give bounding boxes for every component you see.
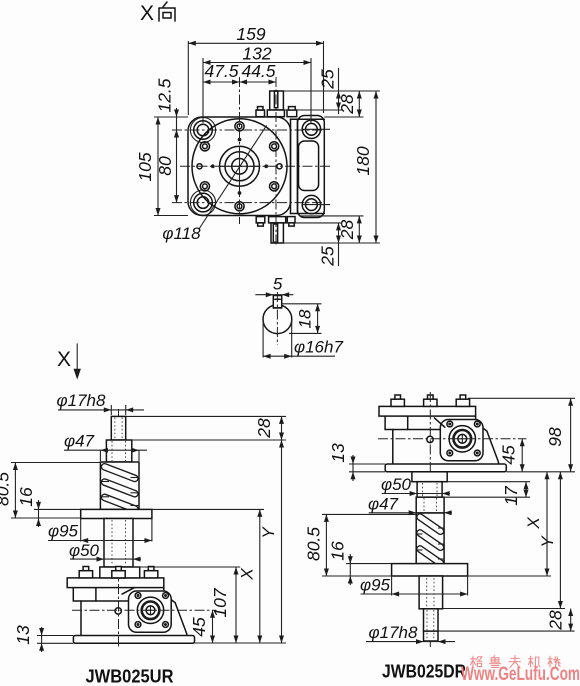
svg-text:X: X bbox=[524, 517, 543, 530]
top view lower shaft bolts bbox=[256, 217, 295, 226]
DR dimension 80.5 bbox=[304, 514, 417, 576]
DR box chamfer bbox=[434, 418, 444, 427]
svg-text:X: X bbox=[238, 568, 257, 581]
key section centrelines bbox=[276, 292, 278, 345]
DR dimension 13 bbox=[328, 443, 385, 481]
UR column foot bbox=[100, 567, 140, 578]
svg-text:φ47: φ47 bbox=[64, 432, 95, 451]
UR plate phi95 bbox=[81, 509, 152, 518]
UR gearbox bbox=[67, 567, 194, 644]
top view corner bolt holes bbox=[190, 117, 215, 142]
UR column phi50 bbox=[104, 519, 133, 568]
svg-text:28: 28 bbox=[337, 94, 357, 115]
svg-text:44.5: 44.5 bbox=[241, 61, 275, 81]
top view worm shaft lower bbox=[269, 217, 286, 243]
UR flange middle bolt bbox=[112, 567, 125, 578]
dimension 25 top right bbox=[284, 68, 342, 114]
svg-text:JWB025DR: JWB025DR bbox=[382, 661, 466, 682]
top view housing recess bbox=[299, 141, 319, 191]
UR top shaft phi17h8 bbox=[111, 416, 125, 440]
svg-text:28: 28 bbox=[546, 610, 566, 631]
DR dimension X bbox=[468, 472, 551, 576]
UR dimension 13 bbox=[13, 625, 73, 652]
DR centreline bbox=[429, 392, 431, 648]
svg-text:φ47: φ47 bbox=[368, 495, 399, 514]
dimension 25 bottom right bbox=[286, 223, 343, 267]
dimension 47.5 bbox=[203, 61, 240, 85]
dimension 28 bottom right bbox=[283, 216, 380, 243]
DR dimension 16 bbox=[328, 541, 392, 585]
svg-text:16: 16 bbox=[16, 487, 36, 507]
svg-text:φ95: φ95 bbox=[360, 576, 391, 595]
DR lower cylinder bbox=[419, 576, 443, 609]
svg-text:13: 13 bbox=[13, 625, 33, 645]
DR collar under base bbox=[412, 472, 447, 482]
UR collar phi47 bbox=[106, 440, 131, 462]
svg-text:φ16h7: φ16h7 bbox=[294, 338, 343, 357]
UR dimension phi17h8 bbox=[57, 391, 144, 415]
key section shaft circle bbox=[263, 305, 292, 334]
svg-text:28: 28 bbox=[254, 418, 274, 439]
dimension 159 bbox=[188, 24, 323, 115]
UR screw with thread bbox=[100, 462, 139, 509]
DR screw thread section bbox=[416, 513, 444, 564]
DR dimension 28 bbox=[438, 609, 575, 632]
top view upper shaft bolts bbox=[256, 107, 297, 117]
UR thread spiral bbox=[100, 467, 139, 509]
svg-text:80.5: 80.5 bbox=[0, 472, 13, 506]
svg-text:Www.GeLufu.Com: Www.GeLufu.Com bbox=[461, 664, 580, 685]
DR dimension 98 bbox=[468, 398, 575, 472]
view arrow X bbox=[57, 343, 81, 379]
UR dimension 28 bbox=[126, 416, 286, 440]
UR dimension phi50 bbox=[69, 541, 141, 562]
dimension phi16h7 bbox=[263, 319, 343, 359]
dimension 44.5 bbox=[240, 61, 277, 85]
top view worm axis centreline bbox=[275, 77, 277, 247]
dimension 12.5 bbox=[155, 78, 180, 137]
DR dimension phi50 bbox=[381, 475, 450, 496]
svg-text:φ50: φ50 bbox=[69, 541, 100, 560]
svg-text:Y: Y bbox=[259, 526, 278, 539]
UR dimension phi95 bbox=[48, 519, 152, 544]
top view worm shaft upper bbox=[267, 91, 284, 117]
svg-text:80.5: 80.5 bbox=[304, 527, 324, 561]
svg-text:17: 17 bbox=[501, 485, 521, 506]
UR worm axis centreline bbox=[72, 609, 217, 611]
svg-text:12.5: 12.5 bbox=[155, 78, 175, 112]
svg-text:X: X bbox=[140, 2, 154, 25]
svg-text:φ95: φ95 bbox=[48, 522, 79, 541]
dimension 28 top right bbox=[283, 91, 380, 117]
UR base bottom extension bbox=[195, 642, 287, 644]
UR dimension 16 bbox=[16, 487, 81, 527]
svg-text:φ118: φ118 bbox=[162, 224, 201, 243]
top view worm housing neck bbox=[290, 119, 292, 214]
UR dimension 80.5 bbox=[0, 463, 100, 519]
dimension 180 bbox=[353, 91, 379, 243]
DR worm axis centreline bbox=[378, 438, 527, 440]
svg-text:105: 105 bbox=[135, 152, 155, 181]
top view worm housing plate bbox=[298, 116, 325, 218]
svg-text:25: 25 bbox=[318, 246, 338, 267]
key section keyway bbox=[273, 296, 281, 308]
DR thread spiral bbox=[416, 517, 444, 563]
view label X-direction bbox=[140, 2, 175, 25]
svg-text:5: 5 bbox=[273, 275, 283, 294]
UR dimension 45 bbox=[189, 610, 215, 643]
DR output shaft phi17h8 bbox=[424, 609, 439, 641]
watermark chinese characters bbox=[471, 656, 561, 668]
dimension 105 bbox=[135, 117, 188, 216]
svg-text:45: 45 bbox=[189, 617, 209, 637]
DR screw phi47 plain section bbox=[416, 497, 444, 513]
UR dimension phi47 bbox=[64, 432, 147, 462]
svg-text:180: 180 bbox=[353, 146, 373, 175]
DR plate phi95 bbox=[392, 564, 468, 576]
DR dimension phi47 bbox=[368, 495, 452, 516]
svg-text:45: 45 bbox=[499, 445, 519, 465]
svg-text:25: 25 bbox=[318, 69, 338, 90]
svg-text:φ17h8: φ17h8 bbox=[369, 623, 418, 642]
top view small tap dots bbox=[238, 138, 242, 142]
DR dimension phi17h8 bbox=[366, 623, 455, 644]
UR centreline bbox=[118, 409, 120, 648]
dimension 5 keyway width bbox=[255, 275, 293, 298]
top view centre bore circles bbox=[220, 146, 260, 186]
DR dimension Y bbox=[443, 472, 565, 609]
svg-text:X: X bbox=[57, 348, 71, 371]
top view vertical centreline bbox=[239, 77, 241, 224]
svg-text:φ17h8: φ17h8 bbox=[57, 391, 106, 410]
svg-text:Y: Y bbox=[538, 535, 557, 548]
svg-text:φ50: φ50 bbox=[381, 475, 412, 494]
top view bolt pattern holes bbox=[235, 122, 244, 131]
DR gearbox bbox=[379, 395, 506, 472]
UR box chamfer bbox=[122, 588, 134, 595]
svg-text:98: 98 bbox=[545, 427, 565, 447]
top view big circle phi118 bbox=[192, 119, 287, 214]
label phi118 with leader bbox=[162, 125, 266, 243]
top view horizontal centreline bbox=[180, 165, 330, 167]
svg-text:47.5: 47.5 bbox=[204, 61, 238, 81]
dimension 18 bbox=[282, 304, 322, 334]
top view hole centrelines bbox=[172, 129, 322, 131]
svg-text:18: 18 bbox=[296, 309, 315, 328]
svg-text:13: 13 bbox=[328, 443, 348, 463]
svg-text:159: 159 bbox=[236, 24, 265, 44]
UR dimension Y bbox=[259, 440, 284, 643]
svg-text:JWB025UR: JWB025UR bbox=[86, 666, 174, 686]
DR dimension 17 bbox=[442, 482, 530, 506]
top view housing ear holes bbox=[302, 120, 320, 138]
dimension 132 bbox=[203, 44, 311, 124]
svg-text:16: 16 bbox=[328, 541, 348, 561]
DR dimension 45 bbox=[499, 439, 525, 472]
top view body flange bbox=[188, 117, 291, 216]
top view centre crosshair bbox=[219, 165, 260, 167]
svg-text:80: 80 bbox=[155, 156, 175, 176]
top view side holes bbox=[197, 164, 202, 169]
dimension 80 bbox=[155, 130, 179, 203]
UR dimension 107 bbox=[133, 567, 240, 643]
DR dimension phi95 bbox=[360, 576, 468, 597]
DR base bottom extension bbox=[506, 471, 575, 473]
DR cylinder phi50 bbox=[417, 482, 442, 498]
UR dimension X bbox=[152, 509, 264, 643]
